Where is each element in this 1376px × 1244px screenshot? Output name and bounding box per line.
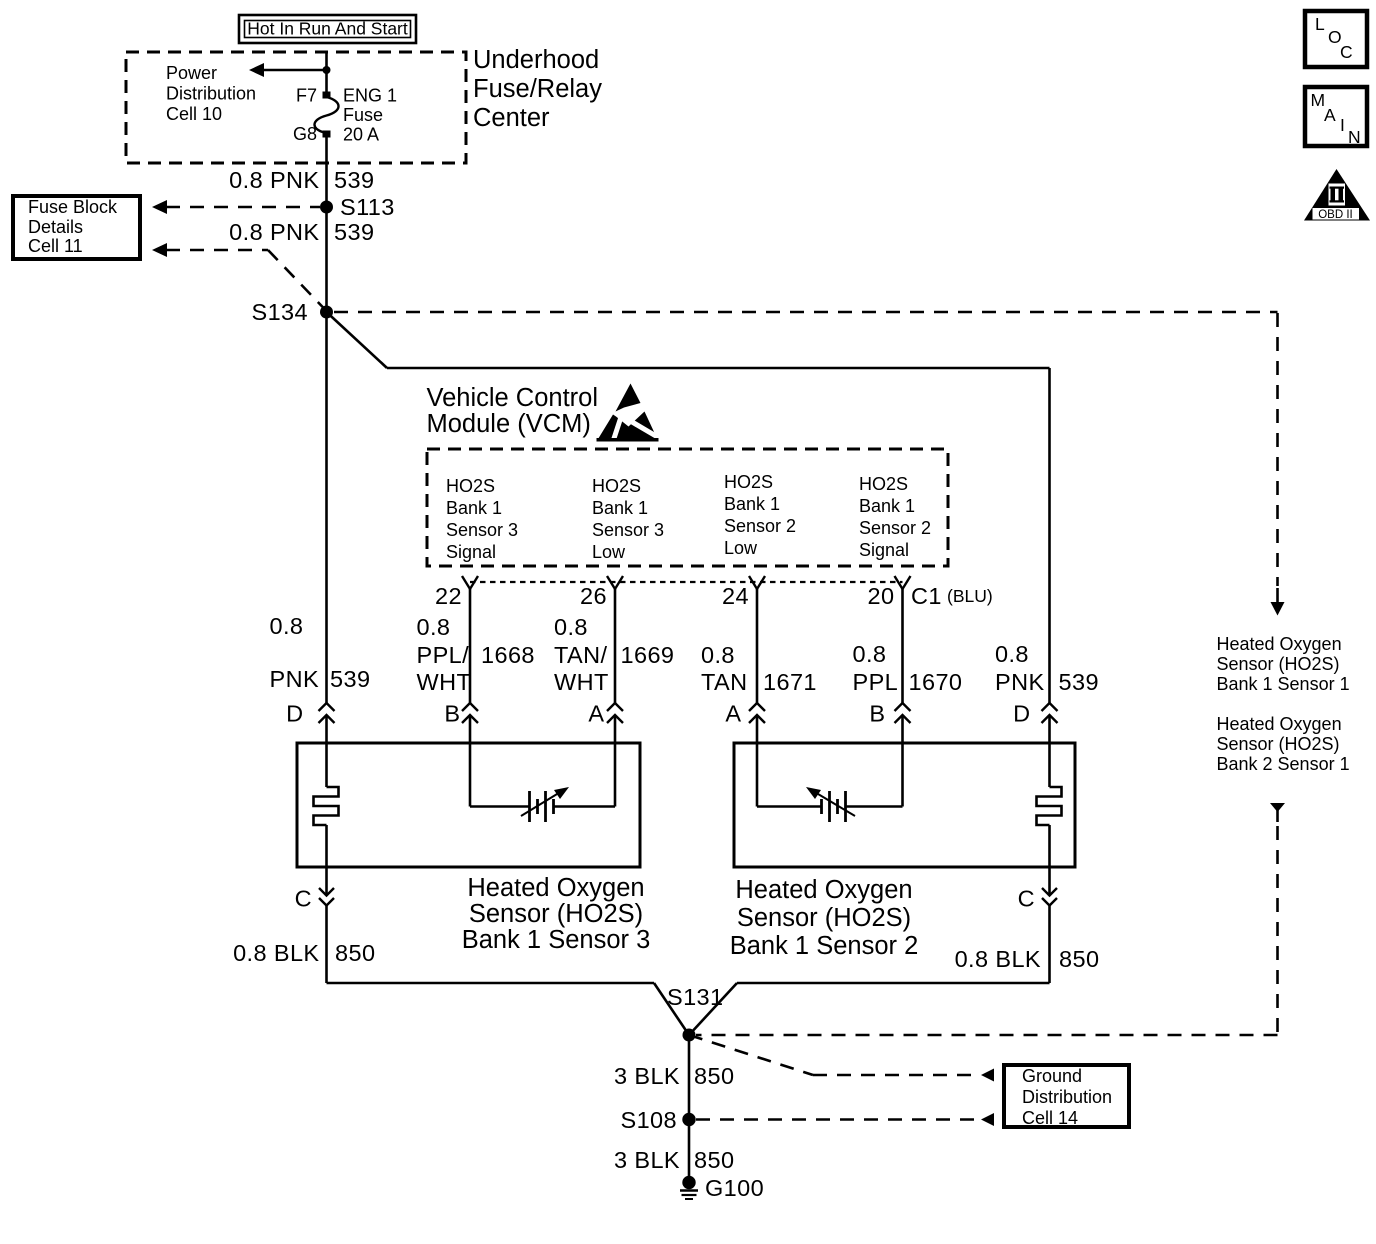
dashed reference arrow S134 to Fuse Block — [152, 243, 327, 311]
svg-text:850: 850 — [694, 1147, 734, 1173]
label Power Distribution Cell 10 — [166, 63, 256, 124]
wire from fuse down to S113 — [325, 134, 328, 207]
svg-text:PPL: PPL — [853, 669, 899, 695]
wire right sensor down to connector C — [1048, 867, 1051, 894]
svg-text:Bank 1: Bank 1 — [859, 496, 915, 516]
pin 22 terminal — [462, 576, 478, 589]
label 0.8 TAN 1671 — [701, 642, 817, 695]
svg-text:Sensor 3: Sensor 3 — [592, 520, 664, 540]
wire S134 down to left sensor — [325, 312, 328, 703]
svg-text:Cell 11: Cell 11 — [28, 236, 83, 256]
svg-text:Heated Oxygen: Heated Oxygen — [1217, 714, 1342, 734]
sensing element (right sensor, variable galvanic cell) — [757, 743, 903, 822]
ESD sensitive device symbol — [597, 384, 662, 447]
label Heated Oxygen Sensor (HO2S) Bank 1 Sensor 1 — [1217, 634, 1350, 694]
svg-text:24: 24 — [722, 583, 749, 609]
svg-text:Center: Center — [473, 104, 550, 132]
svg-text:C1: C1 — [911, 583, 942, 609]
VCM connector dashed box — [427, 449, 948, 566]
wire from hot box into fuse center — [325, 52, 328, 95]
svg-text:HO2S: HO2S — [592, 476, 641, 496]
label 0.8 PNK 539 (left sensor) — [270, 613, 371, 692]
wires connectors into sensor boxes — [327, 715, 1050, 743]
svg-text:20: 20 — [868, 583, 895, 609]
svg-text:Bank 1: Bank 1 — [724, 494, 780, 514]
svg-text:G8: G8 — [293, 124, 317, 144]
svg-text:C: C — [1340, 42, 1353, 62]
svg-text:Sensor (HO2S): Sensor (HO2S) — [737, 904, 911, 932]
label 0.8 BLK 850 (left) — [233, 940, 375, 966]
svg-text:Module (VCM): Module (VCM) — [427, 410, 591, 438]
svg-text:1671: 1671 — [763, 669, 817, 695]
svg-text:539: 539 — [1059, 669, 1099, 695]
dashed reference arrow S113 to Fuse Block — [152, 200, 320, 214]
label 0.8 PNK 539 (above S113) — [229, 167, 374, 193]
label 0.8 PNK 539 (right sensor) — [995, 641, 1099, 695]
svg-text:22: 22 — [435, 583, 462, 609]
svg-text:0.8 BLK: 0.8 BLK — [955, 946, 1041, 972]
splice S134 — [320, 306, 333, 319]
connector C (left) — [295, 886, 334, 912]
svg-text:Heated Oxygen: Heated Oxygen — [1217, 634, 1342, 654]
svg-text:F7: F7 — [296, 86, 317, 106]
svg-text:TAN/: TAN/ — [554, 642, 607, 668]
HO2S Bank 1 Sensor 3 box — [297, 743, 640, 867]
dashed reference arrow S131 to Ground Distribution — [689, 1035, 994, 1082]
fuse G8 terminal bottom — [323, 131, 331, 138]
dashed line S134 to right side — [334, 312, 1285, 616]
svg-text:Sensor (HO2S): Sensor (HO2S) — [1217, 734, 1340, 754]
connector C (right) — [1018, 886, 1057, 912]
svg-text:Bank 1 Sensor 2: Bank 1 Sensor 2 — [730, 932, 919, 960]
svg-text:M: M — [1311, 90, 1326, 110]
svg-text:S108: S108 — [621, 1107, 677, 1133]
svg-text:TAN: TAN — [701, 669, 747, 695]
fuse ENG 1 element — [314, 97, 338, 133]
wire left sensor ground run to S131 — [327, 906, 690, 1036]
svg-text:S134: S134 — [252, 299, 308, 325]
svg-text:20 A: 20 A — [343, 125, 379, 145]
label Heated Oxygen Sensor (HO2S) Bank 1 Sensor 2 — [730, 876, 919, 960]
junction dot at fuse feed — [323, 66, 331, 74]
svg-text:539: 539 — [330, 666, 370, 692]
svg-text:Power: Power — [166, 63, 217, 83]
svg-text:0.8 BLK: 0.8 BLK — [233, 940, 319, 966]
wire S134 to right sensor (diagonal + top run + down) — [327, 312, 1050, 703]
svg-text:Low: Low — [724, 538, 758, 558]
svg-text:G100: G100 — [705, 1175, 764, 1201]
svg-text:850: 850 — [694, 1063, 734, 1089]
svg-text:Sensor 2: Sensor 2 — [724, 516, 796, 536]
Fuse Block Details Cell 11 box — [13, 196, 140, 259]
svg-text:Cell 14: Cell 14 — [1022, 1108, 1078, 1128]
label Heated Oxygen Sensor (HO2S) Bank 2 Sensor 1 — [1217, 714, 1350, 774]
label HO2S Bank 1 Sensor 2 Low — [724, 472, 796, 558]
svg-text:HO2S: HO2S — [859, 474, 908, 494]
wire left sensor down to connector C — [325, 867, 328, 894]
dotted connector line C1 — [470, 581, 903, 583]
svg-text:Signal: Signal — [859, 540, 909, 560]
svg-text:0.8: 0.8 — [995, 641, 1029, 667]
connector D (right, in-line) — [1013, 701, 1057, 727]
svg-text:1670: 1670 — [909, 669, 963, 695]
wire pin 22 down to connector B — [469, 589, 472, 703]
heater element (right sensor) — [1037, 743, 1062, 867]
svg-text:26: 26 — [580, 583, 607, 609]
svg-text:S131: S131 — [667, 984, 723, 1010]
svg-text:Bank 1 Sensor 3: Bank 1 Sensor 3 — [462, 926, 651, 954]
svg-text:Fuse Block: Fuse Block — [28, 197, 118, 217]
svg-text:0.8: 0.8 — [417, 614, 451, 640]
svg-text:0.8: 0.8 — [701, 642, 735, 668]
svg-text:A: A — [725, 701, 741, 727]
svg-text:WHT: WHT — [417, 669, 472, 695]
svg-text:Bank 1: Bank 1 — [446, 498, 502, 518]
label HO2S Bank 1 Sensor 3 Low — [592, 476, 664, 562]
label C1 (BLU) — [911, 583, 993, 609]
svg-text:L: L — [1315, 14, 1325, 34]
wire S113 to S134 — [325, 207, 328, 312]
svg-text:B: B — [869, 701, 885, 727]
fuse F7/G8 terminal top — [323, 92, 331, 99]
svg-text:PNK: PNK — [995, 669, 1045, 695]
connector A (pin26) — [588, 701, 623, 727]
svg-text:Sensor (HO2S): Sensor (HO2S) — [1217, 654, 1340, 674]
arrow to Power Distribution — [249, 63, 327, 77]
LOC icon — [1305, 11, 1367, 67]
svg-text:HO2S: HO2S — [446, 476, 495, 496]
svg-text:B: B — [444, 701, 460, 727]
svg-text:PNK: PNK — [270, 666, 320, 692]
svg-text:0.8: 0.8 — [554, 614, 588, 640]
hot feed box "Hot In Run And Start" — [239, 15, 416, 43]
svg-text:Distribution: Distribution — [1022, 1087, 1112, 1107]
wire S131 to S108 — [688, 1035, 691, 1120]
ground G100 — [680, 1176, 698, 1199]
splice S131 — [683, 1029, 696, 1042]
pin 26 terminal — [607, 576, 623, 589]
wire pin 20 down to connector B — [901, 589, 904, 703]
svg-text:Cell 10: Cell 10 — [166, 104, 222, 124]
label 0.8 PPL/WHT 1668 — [417, 614, 535, 695]
label 0.8 PNK 539 (below S113) — [229, 219, 374, 245]
svg-text:S113: S113 — [340, 194, 395, 220]
sensing element (left sensor, variable galvanic cell) — [470, 743, 615, 822]
label 0.8 TAN/WHT 1669 — [554, 614, 674, 695]
svg-text:OBD II: OBD II — [1318, 209, 1353, 221]
svg-text:ENG 1: ENG 1 — [343, 86, 397, 106]
svg-text:A: A — [588, 701, 604, 727]
svg-text:850: 850 — [1059, 946, 1099, 972]
svg-text:Low: Low — [592, 542, 626, 562]
svg-text:0.8: 0.8 — [270, 613, 304, 639]
dashed line S131 to right side (Bank 2 Sensor 1) — [696, 803, 1285, 1035]
MAIN icon — [1305, 87, 1367, 147]
svg-text:Hot In Run And Start: Hot In Run And Start — [247, 19, 408, 39]
svg-text:WHT: WHT — [554, 669, 609, 695]
svg-text:Bank 1: Bank 1 — [592, 498, 648, 518]
svg-text:PPL/: PPL/ — [417, 642, 470, 668]
svg-text:Distribution: Distribution — [166, 84, 256, 104]
svg-text:Sensor 3: Sensor 3 — [446, 520, 518, 540]
svg-text:3 BLK: 3 BLK — [614, 1147, 680, 1173]
label HO2S Bank 1 Sensor 3 Signal — [446, 476, 518, 562]
label HO2S Bank 1 Sensor 2 Signal — [859, 474, 931, 560]
svg-text:Sensor 2: Sensor 2 — [859, 518, 931, 538]
svg-text:HO2S: HO2S — [724, 472, 773, 492]
svg-text:(BLU): (BLU) — [947, 586, 993, 606]
svg-text:Fuse: Fuse — [343, 105, 383, 125]
label Heated Oxygen Sensor (HO2S) Bank 1 Sensor 3 — [462, 874, 651, 954]
svg-text:Signal: Signal — [446, 542, 496, 562]
svg-text:A: A — [1324, 105, 1336, 125]
splice S108 — [682, 1113, 695, 1126]
wire pin 24 down to connector A — [756, 589, 759, 703]
svg-text:1668: 1668 — [481, 642, 535, 668]
heater element (left sensor) — [314, 743, 339, 867]
connector D (left, in-line) — [286, 701, 334, 727]
Underhood Fuse/Relay Center dashed box — [126, 52, 466, 163]
svg-text:Ground: Ground — [1022, 1066, 1082, 1086]
svg-text:3 BLK: 3 BLK — [614, 1063, 680, 1089]
svg-text:D: D — [1013, 701, 1030, 727]
svg-text:1669: 1669 — [621, 642, 675, 668]
svg-text:Bank 2 Sensor 1: Bank 2 Sensor 1 — [1217, 754, 1350, 774]
label Underhood Fuse/Relay Center — [473, 46, 602, 132]
wire S108 to G100 — [688, 1120, 691, 1183]
connector A (pin24) — [725, 701, 765, 727]
svg-text:0.8: 0.8 — [853, 641, 887, 667]
HO2S Bank 1 Sensor 2 box — [734, 743, 1075, 867]
svg-text:Details: Details — [28, 217, 83, 237]
svg-text:C: C — [295, 886, 312, 912]
svg-text:0.8 PNK: 0.8 PNK — [229, 219, 319, 245]
label Vehicle Control Module (VCM) — [427, 384, 599, 438]
Ground Distribution Cell 14 box — [1004, 1065, 1129, 1128]
svg-text:Heated Oxygen: Heated Oxygen — [735, 876, 912, 904]
svg-text:Fuse/Relay: Fuse/Relay — [473, 75, 602, 103]
label ENG 1 Fuse 20 A — [343, 86, 397, 145]
connector B (pin20) — [869, 701, 910, 727]
label 3 BLK 850 (upper) — [614, 1063, 734, 1089]
svg-text:539: 539 — [334, 167, 374, 193]
label 0.8 PPL 1670 — [853, 641, 963, 695]
svg-text:C: C — [1018, 886, 1035, 912]
label 3 BLK 850 (lower) — [614, 1147, 734, 1173]
svg-text:Heated Oxygen: Heated Oxygen — [467, 874, 644, 902]
pin 24 terminal — [749, 576, 765, 589]
svg-text:Bank 1 Sensor 1: Bank 1 Sensor 1 — [1217, 674, 1350, 694]
svg-text:850: 850 — [335, 940, 375, 966]
svg-text:0.8 PNK: 0.8 PNK — [229, 167, 319, 193]
label 0.8 BLK 850 (right) — [955, 946, 1100, 972]
svg-text:I: I — [1340, 115, 1345, 135]
wire pin 26 down to connector A — [614, 589, 617, 703]
dashed reference arrow S108 to Ground Distribution — [696, 1113, 994, 1126]
svg-text:Vehicle Control: Vehicle Control — [427, 384, 599, 412]
svg-text:Underhood: Underhood — [473, 46, 599, 74]
svg-text:539: 539 — [334, 219, 374, 245]
svg-text:N: N — [1348, 127, 1361, 147]
svg-text:D: D — [286, 701, 303, 727]
connector B (pin22) — [444, 701, 478, 727]
svg-text:Sensor (HO2S): Sensor (HO2S) — [469, 900, 643, 928]
OBD II icon — [1304, 169, 1370, 221]
wire right sensor ground run to S131 — [689, 906, 1050, 1036]
pin 20 terminal — [895, 576, 911, 589]
splice S113 — [320, 201, 333, 214]
